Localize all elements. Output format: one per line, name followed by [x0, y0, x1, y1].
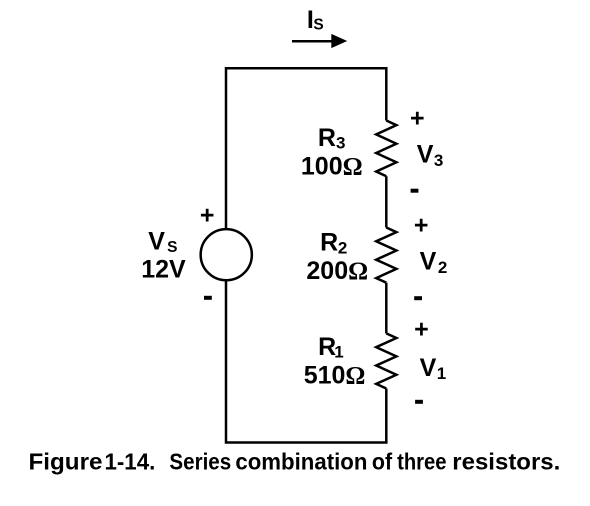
- caption Figure 1-14: [29, 449, 561, 475]
- svg-text:100Ω: 100Ω: [301, 153, 363, 181]
- svg-text:R: R: [320, 229, 338, 257]
- svg-text:1: 1: [334, 343, 343, 362]
- svg-text:V: V: [148, 227, 165, 255]
- svg-text:12V: 12V: [141, 256, 186, 284]
- current arrow Is: [292, 40, 334, 43]
- wire left-top-right: [226, 68, 386, 229]
- svg-text:3: 3: [434, 151, 443, 170]
- svg-text:R: R: [318, 124, 336, 152]
- voltage source VS: [201, 229, 252, 280]
- svg-text:+: +: [414, 315, 429, 343]
- svg-text:3: 3: [336, 133, 345, 152]
- svg-text:combination: combination: [235, 449, 367, 475]
- resistor R1: [376, 333, 396, 388]
- svg-text:+: +: [414, 212, 429, 240]
- svg-text:1-14.: 1-14.: [105, 449, 156, 475]
- polarity - of V2: [414, 296, 422, 300]
- resistor R2: [376, 228, 396, 283]
- svg-text:+: +: [410, 104, 425, 132]
- svg-text:2: 2: [338, 238, 347, 257]
- polarity - of source: [204, 296, 212, 300]
- resistor R3: [376, 121, 396, 177]
- svg-text:of: of: [372, 449, 392, 475]
- svg-text:resistors.: resistors.: [452, 449, 560, 475]
- polarity - of V3: [411, 189, 419, 193]
- svg-text:V: V: [420, 354, 437, 382]
- svg-text:Figure: Figure: [29, 449, 103, 475]
- wire between R2 and R1: [385, 283, 388, 334]
- svg-text:+: +: [200, 202, 215, 230]
- wire right-bottom-left: [226, 280, 386, 442]
- wire between R3 and R2: [385, 176, 388, 227]
- svg-text:V: V: [420, 247, 437, 275]
- svg-text:three: three: [397, 449, 446, 475]
- svg-text:510Ω: 510Ω: [304, 361, 366, 389]
- svg-text:V: V: [417, 141, 434, 169]
- svg-text:S: S: [167, 239, 177, 256]
- svg-text:2: 2: [438, 258, 447, 277]
- polarity - of V1: [415, 400, 423, 404]
- svg-text:Series: Series: [169, 449, 231, 475]
- svg-text:S: S: [313, 17, 323, 34]
- svg-text:1: 1: [437, 364, 446, 383]
- svg-text:200Ω: 200Ω: [306, 257, 368, 285]
